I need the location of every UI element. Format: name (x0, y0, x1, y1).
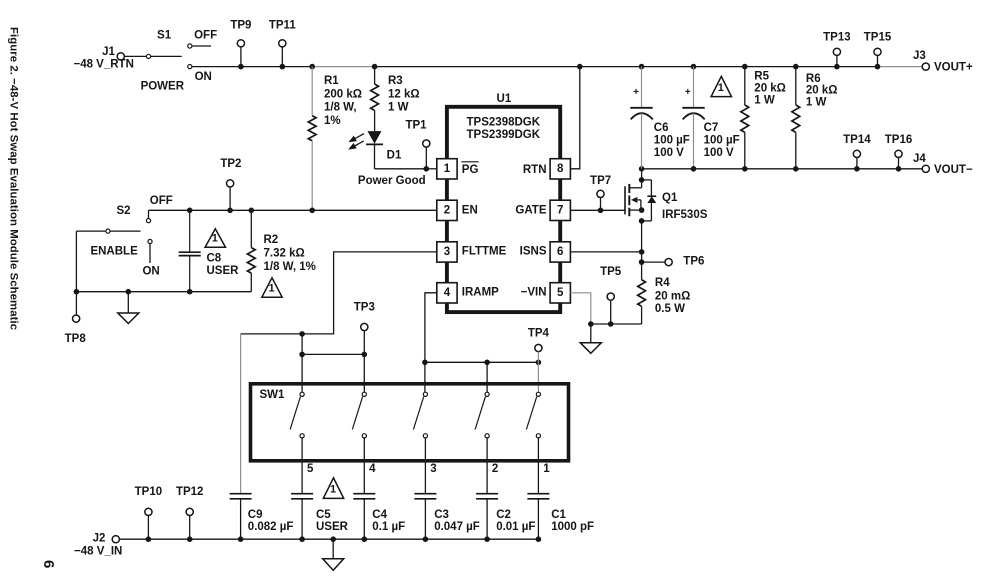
svg-text:D1: D1 (387, 149, 402, 161)
svg-text:ON: ON (195, 71, 212, 83)
capacitor C6 (639, 64, 645, 70)
svg-text:1: 1 (330, 484, 336, 496)
svg-text:1 W: 1 W (388, 102, 409, 114)
ground (input) (330, 536, 336, 542)
svg-text:R6: R6 (806, 73, 821, 85)
svg-text:S2: S2 (116, 205, 130, 217)
svg-text:R2: R2 (264, 234, 279, 246)
svg-text:R4: R4 (655, 277, 670, 289)
SW1 position 2 (485, 392, 489, 396)
svg-text:100 µF: 100 µF (704, 134, 740, 146)
svg-text:C2: C2 (496, 509, 511, 521)
capacitor C2 (476, 493, 498, 495)
svg-text:TP8: TP8 (65, 333, 87, 345)
svg-text:−VIN: −VIN (521, 286, 547, 298)
svg-text:2: 2 (492, 463, 498, 475)
svg-text:TP16: TP16 (885, 134, 913, 146)
svg-text:ISNS: ISNS (520, 246, 547, 258)
svg-text:C1: C1 (551, 509, 566, 521)
svg-text:+: + (685, 87, 691, 98)
ground (sense) (590, 324, 592, 343)
U1 pin 3 FLTTME (437, 242, 457, 262)
resistor R6 (793, 64, 799, 70)
svg-text:0.01 µF: 0.01 µF (496, 521, 535, 533)
resistor R3 (372, 64, 378, 70)
svg-text:100 µF: 100 µF (654, 134, 690, 146)
wire enable ground rail (76, 291, 251, 293)
svg-text:TP7: TP7 (590, 175, 611, 187)
SW1 position 3 (423, 392, 427, 396)
capacitor C7 (691, 64, 697, 70)
svg-text:VOUT−: VOUT− (934, 164, 973, 176)
U1 pin 4 IRAMP (437, 283, 457, 303)
svg-text:RTN: RTN (523, 164, 547, 176)
svg-text:TP13: TP13 (823, 31, 851, 43)
svg-text:J3: J3 (913, 50, 926, 62)
svg-text:TP9: TP9 (230, 19, 251, 31)
svg-text:0.5 W: 0.5 W (655, 303, 685, 315)
svg-text:4: 4 (444, 287, 451, 299)
resistor R1 (309, 64, 315, 70)
svg-text:PG: PG (462, 164, 479, 176)
svg-text:R5: R5 (754, 71, 769, 83)
svg-text:5: 5 (307, 463, 314, 475)
wire ISNS (570, 251, 641, 253)
svg-text:R1: R1 (324, 75, 339, 87)
svg-text:USER: USER (316, 521, 349, 533)
U1 pin 5 -VIN (550, 283, 570, 303)
DIP switch SW1 (251, 384, 569, 461)
svg-text:2: 2 (444, 205, 450, 217)
svg-text:C6: C6 (654, 122, 669, 134)
test point TP8 (75, 292, 77, 315)
svg-text:1: 1 (212, 232, 218, 244)
svg-text:C9: C9 (248, 509, 263, 521)
svg-text:1/8 W,: 1/8 W, (324, 102, 357, 114)
svg-text:1: 1 (444, 163, 451, 175)
svg-text:C5: C5 (316, 509, 331, 521)
svg-text:0.1 µF: 0.1 µF (372, 521, 405, 533)
capacitor C1 (527, 493, 549, 495)
svg-text:C4: C4 (372, 509, 387, 521)
LED D1 (368, 131, 382, 144)
svg-text:TP14: TP14 (843, 134, 871, 146)
svg-text:Power Good: Power Good (358, 175, 426, 187)
svg-text:−48 V_IN: −48 V_IN (74, 546, 122, 558)
wire EN rail (148, 210, 150, 218)
svg-text:TP1: TP1 (405, 120, 427, 132)
svg-text:1 W: 1 W (806, 96, 827, 108)
svg-text:J4: J4 (913, 153, 926, 165)
svg-text:USER: USER (207, 265, 240, 277)
capacitor C5 (291, 493, 313, 495)
warning triangle 1 (output caps) (711, 76, 731, 96)
svg-text:1%: 1% (324, 115, 341, 127)
svg-text:C3: C3 (434, 509, 449, 521)
svg-text:U1: U1 (497, 93, 512, 105)
svg-text:20 kΩ: 20 kΩ (754, 83, 786, 95)
SW1 position 5 (300, 392, 304, 396)
SW1 position 4 (362, 392, 366, 396)
svg-text:TPS2398DGK: TPS2398DGK (467, 116, 541, 128)
svg-text:EN: EN (462, 205, 478, 217)
svg-text:J2: J2 (93, 533, 106, 545)
svg-text:7: 7 (557, 205, 563, 217)
ground (S2) (126, 289, 132, 295)
svg-text:5: 5 (557, 287, 564, 299)
svg-text:4: 4 (369, 463, 376, 475)
svg-text:ON: ON (142, 266, 159, 278)
svg-text:S1: S1 (157, 30, 172, 42)
test point TP6 (639, 259, 645, 265)
svg-text:ENABLE: ENABLE (90, 246, 138, 258)
connector J2 (112, 536, 119, 543)
resistor R4 (641, 262, 643, 280)
svg-text:20 kΩ: 20 kΩ (806, 85, 838, 97)
svg-text:1/8 W, 1%: 1/8 W, 1% (264, 261, 316, 273)
svg-text:SW1: SW1 (260, 389, 286, 401)
svg-text:J1: J1 (102, 46, 115, 58)
capacitor C8 (187, 208, 193, 214)
svg-text:1: 1 (543, 463, 550, 475)
svg-text:POWER: POWER (141, 81, 185, 93)
svg-text:IRAMP: IRAMP (462, 286, 499, 298)
svg-text:1: 1 (718, 82, 724, 94)
op-amp U1 (hot swap controller) (447, 107, 560, 312)
capacitor C4 (353, 493, 375, 495)
wire GATE (570, 209, 625, 211)
svg-text:TP10: TP10 (135, 486, 163, 498)
svg-text:TP6: TP6 (683, 256, 704, 268)
svg-text:C7: C7 (704, 122, 719, 134)
svg-text:TP2: TP2 (220, 158, 241, 170)
node R1/EN junction (309, 208, 315, 214)
svg-text:3: 3 (444, 246, 450, 258)
svg-text:+: + (633, 87, 639, 98)
svg-text:TPS2399DGK: TPS2399DGK (467, 129, 541, 141)
svg-text:1 W: 1 W (754, 94, 775, 106)
svg-text:Q1: Q1 (662, 192, 678, 204)
svg-text:OFF: OFF (150, 195, 173, 207)
wire top rail (192, 66, 312, 68)
svg-text:TP11: TP11 (269, 19, 296, 31)
wire FLTTME route (241, 252, 437, 334)
SW1 position 1 (536, 392, 540, 396)
wire RTN to top rail (570, 67, 579, 169)
connector J1 (117, 53, 124, 60)
svg-text:IRF530S: IRF530S (662, 209, 708, 221)
svg-text:6: 6 (40, 560, 57, 568)
svg-text:GATE: GATE (515, 205, 546, 217)
svg-text:R3: R3 (388, 75, 403, 87)
U1 pin 1 PG (437, 159, 457, 179)
svg-text:Figure 2. −48-V Hot Swap Evalu: Figure 2. −48-V Hot Swap Evaluation Modu… (8, 27, 20, 330)
warning triangle 1 (R2) (262, 278, 282, 298)
connector J3 (922, 63, 929, 70)
svg-text:7.32 kΩ: 7.32 kΩ (264, 248, 305, 260)
svg-text:1000 pF: 1000 pF (551, 521, 594, 533)
resistor R2 (249, 208, 255, 214)
warning triangle 1 (C5) (323, 478, 343, 499)
svg-text:VOUT+: VOUT+ (934, 61, 973, 73)
wire -VIN (570, 293, 590, 324)
svg-text:C8: C8 (207, 253, 222, 265)
svg-text:TP3: TP3 (354, 302, 375, 314)
svg-text:3: 3 (430, 463, 436, 475)
svg-text:TP4: TP4 (528, 328, 550, 340)
capacitor C3 (414, 493, 436, 495)
svg-text:100 V: 100 V (654, 147, 684, 159)
wire IRAMP route (425, 293, 437, 363)
switch S1 (146, 54, 150, 58)
transistor Q1 MOSFET (641, 169, 643, 180)
svg-text:6: 6 (557, 246, 563, 258)
svg-text:0.082 µF: 0.082 µF (248, 521, 294, 533)
svg-text:TP12: TP12 (176, 486, 204, 498)
U1 pin 8 RTN (550, 159, 570, 179)
connector J4 (922, 165, 929, 172)
capacitor C9 (230, 493, 252, 495)
svg-text:8: 8 (557, 163, 564, 175)
svg-text:1: 1 (268, 283, 274, 295)
svg-text:100 V: 100 V (704, 147, 734, 159)
svg-text:200 kΩ: 200 kΩ (324, 88, 362, 100)
svg-text:0.047 µF: 0.047 µF (434, 521, 480, 533)
U1 pin 7 GATE (550, 200, 570, 220)
resistor R5 (742, 64, 748, 70)
wire VOUT- rail (642, 168, 926, 170)
svg-text:TP5: TP5 (600, 266, 622, 278)
svg-text:12 kΩ: 12 kΩ (388, 88, 420, 100)
svg-text:FLTTME: FLTTME (462, 246, 507, 258)
svg-text:20 mΩ: 20 mΩ (655, 290, 690, 302)
U1 pin 6 ISNS (550, 242, 570, 262)
U1 pin 2 EN (437, 200, 457, 220)
warning triangle 1 (C8) (205, 229, 225, 247)
svg-text:OFF: OFF (194, 30, 217, 42)
wire -48V_IN rail (119, 538, 538, 540)
svg-text:TP15: TP15 (864, 31, 892, 43)
svg-text:−48 V_RTN: −48 V_RTN (73, 59, 133, 71)
